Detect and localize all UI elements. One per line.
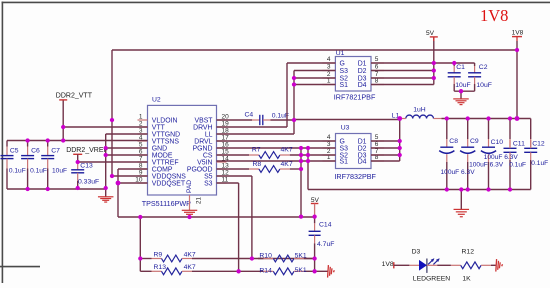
svg-text:4K7: 4K7: [184, 252, 196, 259]
svg-text:6: 6: [375, 141, 379, 148]
svg-text:0.1uF: 0.1uF: [509, 161, 526, 168]
svg-text:R7: R7: [252, 147, 261, 154]
svg-text:PGND: PGND: [193, 146, 213, 153]
svg-text:IRF7832PBF: IRF7832PBF: [334, 172, 376, 181]
svg-text:5K1: 5K1: [295, 252, 307, 259]
svg-text:21: 21: [196, 197, 203, 204]
svg-text:C9: C9: [470, 138, 479, 145]
svg-text:1uH: 1uH: [413, 107, 426, 114]
svg-text:C8: C8: [449, 138, 458, 145]
svg-text:4: 4: [327, 134, 331, 141]
svg-text:D4: D4: [358, 82, 367, 89]
svg-text:0.1uF: 0.1uF: [531, 160, 548, 167]
svg-text:CS: CS: [203, 153, 213, 160]
svg-text:PAD: PAD: [186, 180, 193, 193]
svg-text:4.7uF: 4.7uF: [317, 241, 334, 248]
svg-text:VDDQSNS: VDDQSNS: [152, 174, 186, 181]
svg-text:4K7: 4K7: [184, 264, 196, 271]
svg-text:3: 3: [327, 141, 331, 148]
svg-text:R9: R9: [154, 252, 163, 259]
svg-text:LL: LL: [205, 132, 213, 139]
svg-text:100uF 6.3V: 100uF 6.3V: [484, 154, 519, 161]
svg-text:100uF 6.3V: 100uF 6.3V: [441, 169, 476, 176]
svg-text:C13: C13: [80, 163, 93, 170]
svg-text:5: 5: [375, 56, 379, 63]
svg-text:TPS51116PWP: TPS51116PWP: [142, 199, 191, 208]
svg-text:1K: 1K: [462, 276, 471, 283]
svg-text:D3: D3: [412, 249, 421, 256]
svg-text:8: 8: [375, 78, 379, 85]
svg-text:C10: C10: [491, 139, 504, 146]
svg-text:C14: C14: [319, 222, 332, 229]
svg-text:U3: U3: [341, 125, 350, 132]
svg-text:DDR2_VTT: DDR2_VTT: [56, 92, 93, 99]
svg-text:C5: C5: [10, 147, 19, 154]
svg-text:DRVH: DRVH: [193, 125, 212, 132]
svg-text:5: 5: [375, 134, 379, 141]
svg-text:VDDQSET: VDDQSET: [152, 181, 186, 188]
svg-text:D4: D4: [358, 159, 367, 166]
svg-text:0.1uF: 0.1uF: [9, 167, 26, 174]
svg-text:C6: C6: [31, 147, 40, 154]
svg-text:1V8: 1V8: [480, 6, 508, 25]
svg-text:1: 1: [139, 113, 143, 120]
svg-text:VLDOIN: VLDOIN: [152, 118, 178, 125]
svg-text:10uF: 10uF: [476, 82, 492, 89]
svg-text:4K7: 4K7: [281, 161, 293, 168]
svg-text:PGOOD: PGOOD: [187, 167, 213, 174]
svg-text:D1: D1: [358, 139, 367, 146]
svg-text:G: G: [340, 139, 345, 146]
svg-text:GND: GND: [152, 146, 167, 153]
svg-text:S5: S5: [204, 174, 213, 181]
svg-text:5K1: 5K1: [295, 267, 307, 274]
svg-text:VTTSNS: VTTSNS: [152, 139, 180, 146]
svg-text:D1: D1: [358, 61, 367, 68]
svg-text:C4: C4: [245, 111, 254, 118]
svg-text:R8: R8: [253, 161, 262, 168]
svg-text:C11: C11: [513, 141, 525, 148]
svg-text:R13: R13: [154, 264, 167, 271]
svg-text:LEDGREEN: LEDGREEN: [413, 276, 450, 283]
svg-text:0.1uF: 0.1uF: [30, 167, 47, 174]
svg-text:VBST: VBST: [195, 118, 214, 125]
svg-text:R14: R14: [259, 268, 272, 275]
svg-text:1V8: 1V8: [512, 30, 524, 37]
svg-text:1: 1: [327, 78, 331, 85]
svg-text:4: 4: [327, 56, 331, 63]
svg-text:G: G: [340, 61, 345, 68]
svg-text:C12: C12: [532, 141, 545, 148]
svg-text:DDR2_VREF: DDR2_VREF: [66, 147, 108, 154]
svg-text:R12: R12: [462, 249, 475, 256]
svg-text:C1: C1: [456, 64, 465, 71]
svg-text:R10: R10: [259, 253, 272, 260]
svg-text:10uF: 10uF: [455, 82, 471, 89]
svg-text:1V8: 1V8: [382, 261, 394, 268]
svg-text:100uF 6.3V: 100uF 6.3V: [469, 162, 504, 169]
svg-text:VTTREF: VTTREF: [152, 160, 179, 167]
svg-text:0.33uF: 0.33uF: [78, 179, 99, 186]
svg-text:S1: S1: [340, 82, 349, 89]
svg-text:C7: C7: [51, 147, 60, 154]
svg-text:S1: S1: [340, 159, 349, 166]
svg-text:COMP: COMP: [152, 167, 173, 174]
svg-text:D2: D2: [358, 68, 367, 75]
svg-text:S3: S3: [204, 181, 213, 188]
svg-text:10uF: 10uF: [52, 167, 67, 174]
svg-text:IRF7821PBF: IRF7821PBF: [334, 93, 376, 102]
svg-text:S3: S3: [340, 68, 349, 75]
svg-text:C2: C2: [479, 64, 488, 71]
svg-text:3: 3: [327, 64, 331, 71]
svg-text:D2: D2: [358, 146, 367, 153]
svg-text:5V: 5V: [311, 197, 320, 204]
svg-text:MODE: MODE: [152, 153, 173, 160]
svg-text:U2: U2: [152, 97, 161, 104]
svg-text:VTTGND: VTTGND: [152, 132, 180, 139]
svg-text:6: 6: [375, 64, 379, 71]
svg-text:DRVL: DRVL: [194, 139, 212, 146]
svg-text:VTT: VTT: [152, 125, 166, 132]
svg-text:S3: S3: [340, 146, 349, 153]
svg-text:V5IN: V5IN: [197, 160, 212, 167]
svg-text:U1: U1: [336, 50, 345, 57]
svg-text:5V: 5V: [426, 30, 435, 37]
svg-text:4K7: 4K7: [281, 147, 293, 154]
